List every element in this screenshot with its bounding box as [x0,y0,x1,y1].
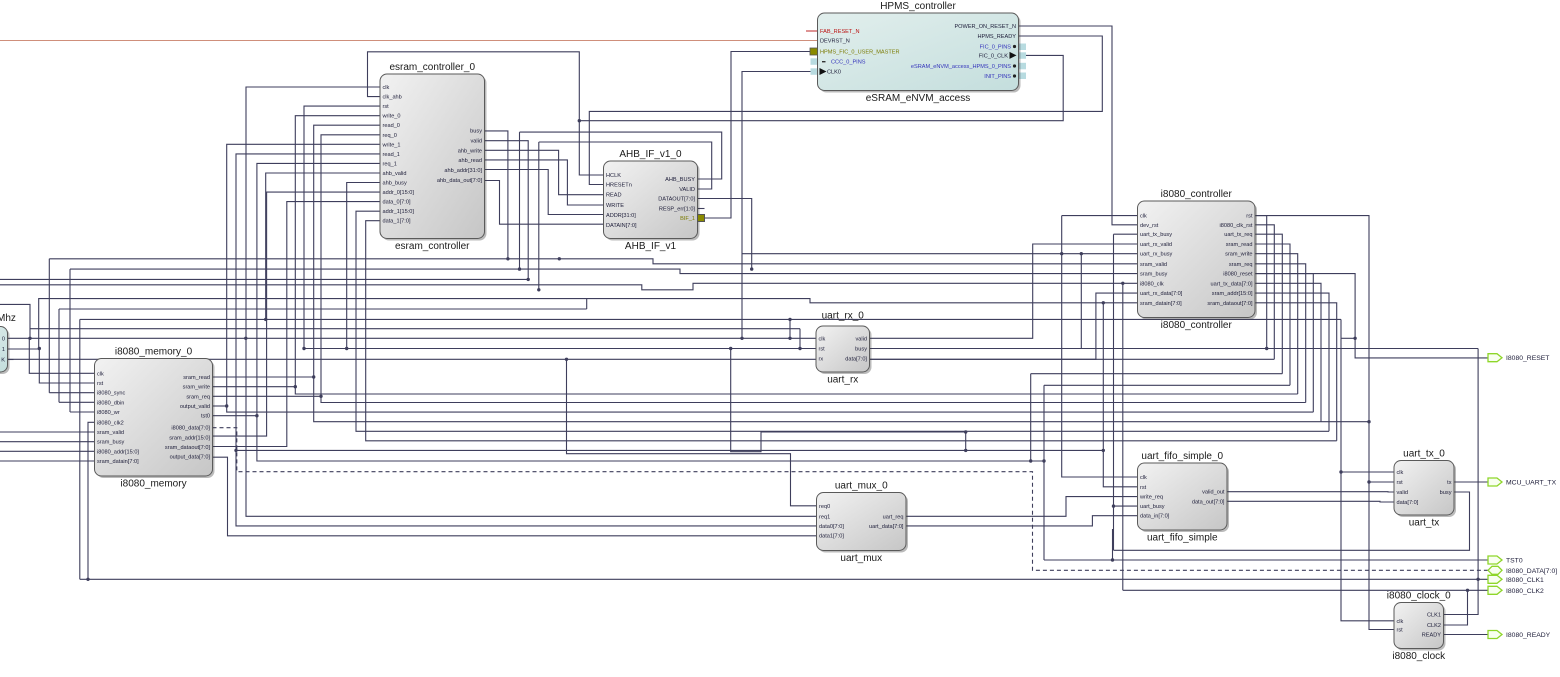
svg-text:READY: READY [1422,633,1442,639]
svg-text:output_valid: output_valid [180,404,210,410]
svg-text:esram_controller: esram_controller [395,241,470,252]
svg-text:sram_read: sram_read [183,375,210,381]
svg-text:data[7:0]: data[7:0] [1397,500,1419,506]
svg-text:write_req: write_req [1139,495,1163,501]
svg-text:output_data[7:0]: output_data[7:0] [170,455,211,461]
svg-text:data[7:0]: data[7:0] [845,357,867,363]
svg-text:i8080_clock: i8080_clock [1392,651,1446,662]
svg-text:Mhz: Mhz [0,313,16,324]
svg-text:i8080_controller: i8080_controller [1161,189,1233,200]
svg-text:busy: busy [1440,490,1452,496]
svg-text:I8080_CLK1: I8080_CLK1 [1506,577,1544,584]
svg-text:uart_tx_0: uart_tx_0 [1403,449,1445,460]
svg-text:I8080_RESET: I8080_RESET [1506,355,1549,362]
svg-text:i8080_controller: i8080_controller [1161,320,1233,331]
svg-text:ahb_addr[31:0]: ahb_addr[31:0] [444,168,482,174]
svg-text:uart_tx_req: uart_tx_req [1224,232,1252,238]
svg-text:eSRAM_eNVM_access_HPMS_0_PINS: eSRAM_eNVM_access_HPMS_0_PINS [911,64,1011,70]
svg-text:uart_data[7:0]: uart_data[7:0] [869,524,904,530]
svg-text:sram_busy: sram_busy [1140,272,1168,278]
svg-text:HRESETn: HRESETn [606,183,632,189]
svg-text:tx: tx [1447,480,1452,486]
svg-text:rst: rst [383,104,390,110]
svg-text:i8080_reset: i8080_reset [1223,272,1253,278]
svg-text:uart_mux: uart_mux [840,553,882,564]
svg-text:K: K [1,358,5,364]
svg-text:POWER_ON_RESET_N: POWER_ON_RESET_N [954,24,1016,30]
svg-text:CLK1: CLK1 [1427,613,1441,619]
svg-text:AHB_IF_v1: AHB_IF_v1 [625,241,677,252]
svg-text:tst0: tst0 [201,414,210,420]
svg-text:sram_busy: sram_busy [97,440,125,446]
svg-text:sram_addr[15:0]: sram_addr[15:0] [169,435,210,441]
svg-text:I8080_DATA[7:0]: I8080_DATA[7:0] [1506,568,1557,575]
svg-text:DATAOUT[7:0]: DATAOUT[7:0] [658,197,695,203]
svg-text:1: 1 [2,347,5,353]
svg-text:sram_read: sram_read [1226,242,1253,248]
svg-text:addr_0[15:0]: addr_0[15:0] [383,190,415,196]
svg-text:addr_1[15:0]: addr_1[15:0] [383,209,415,215]
svg-text:AHB_IF_v1_0: AHB_IF_v1_0 [619,149,682,160]
svg-text:uart_rx_0: uart_rx_0 [822,311,865,322]
svg-text:sram_dataout[7:0]: sram_dataout[7:0] [165,445,211,451]
svg-text:sram_dataout[7:0]: sram_dataout[7:0] [1207,301,1253,307]
svg-text:i8080_addr[15:0]: i8080_addr[15:0] [97,449,139,455]
svg-text:sram_datain[7:0]: sram_datain[7:0] [1140,301,1182,307]
svg-text:uart_tx_data[7:0]: uart_tx_data[7:0] [1211,281,1253,287]
svg-text:clk_ahb: clk_ahb [383,95,402,101]
svg-text:uart_busy: uart_busy [1140,504,1165,510]
svg-text:BIF_1: BIF_1 [680,216,695,222]
svg-text:uart_rx: uart_rx [827,375,858,386]
svg-text:clk: clk [383,85,390,91]
svg-text:rx: rx [819,357,824,363]
svg-text:ahb_write: ahb_write [458,148,482,154]
svg-text:CLK2: CLK2 [1427,623,1441,629]
svg-text:data0[7:0]: data0[7:0] [819,524,844,530]
svg-text:valid_out: valid_out [1202,490,1225,496]
svg-text:i8080_clock_0: i8080_clock_0 [1387,591,1451,602]
svg-text:write_0: write_0 [382,114,401,120]
svg-text:clk: clk [1397,470,1404,476]
svg-text:HPMS_controller: HPMS_controller [880,1,956,12]
svg-text:sram_req: sram_req [1229,262,1253,268]
svg-text:FIC_0_PINS: FIC_0_PINS [980,45,1012,51]
svg-text:uart_fifo_simple_0: uart_fifo_simple_0 [1141,451,1223,462]
svg-text:req1: req1 [819,514,830,520]
svg-text:i8080_sync: i8080_sync [97,391,126,397]
svg-text:uart_fifo_simple: uart_fifo_simple [1147,533,1218,544]
svg-text:rst: rst [97,381,104,387]
svg-text:read_1: read_1 [383,152,400,158]
svg-text:clk: clk [819,336,826,342]
svg-text:i8080_memory: i8080_memory [120,479,186,490]
svg-text:rst: rst [819,346,826,352]
svg-text:INIT_PINS: INIT_PINS [984,74,1011,80]
svg-text:clk: clk [1140,214,1147,220]
svg-text:ahb_busy: ahb_busy [383,181,407,187]
svg-text:uart_tx: uart_tx [1409,518,1440,529]
svg-text:sram_valid: sram_valid [1140,262,1167,268]
svg-text:FAB_RESET_N: FAB_RESET_N [820,29,859,35]
svg-text:CLK0: CLK0 [827,70,841,76]
svg-text:DEVRST_N: DEVRST_N [820,39,850,45]
svg-text:TST0: TST0 [1506,558,1523,565]
svg-text:READ: READ [606,193,622,199]
svg-text:uart_rx_busy: uart_rx_busy [1140,252,1173,258]
svg-text:MCU_UART_TX: MCU_UART_TX [1506,480,1557,487]
svg-text:busy: busy [855,346,867,352]
svg-text:uart_mux_0: uart_mux_0 [835,481,888,492]
svg-text:clk: clk [97,371,104,377]
svg-text:sram_write: sram_write [1225,252,1252,258]
svg-text:data1[7:0]: data1[7:0] [819,534,844,540]
svg-text:data_1[7:0]: data_1[7:0] [383,219,411,225]
svg-text:AHB_BUSY: AHB_BUSY [665,177,695,183]
svg-text:busy: busy [470,129,482,135]
svg-text:i8080_memory_0: i8080_memory_0 [115,347,193,358]
svg-text:rst: rst [1397,628,1404,634]
svg-text:data_out[7:0]: data_out[7:0] [1192,499,1225,505]
svg-text:eSRAM_eNVM_access: eSRAM_eNVM_access [866,93,970,104]
svg-text:data_in[7:0]: data_in[7:0] [1140,514,1170,520]
svg-text:req_0: req_0 [383,133,397,139]
svg-text:HCLK: HCLK [606,173,621,179]
svg-text:uart_req: uart_req [883,514,904,520]
svg-text:i8080_wr: i8080_wr [97,410,120,416]
svg-text:HPMS_FIC_0_USER_MASTER: HPMS_FIC_0_USER_MASTER [820,50,900,56]
svg-text:sram_valid: sram_valid [97,430,124,436]
svg-text:clk: clk [1397,619,1404,625]
svg-text:uart_tx_busy: uart_tx_busy [1140,232,1172,238]
svg-text:rst: rst [1397,480,1404,486]
svg-text:rst: rst [1140,485,1147,491]
svg-text:i8080_clk2: i8080_clk2 [97,420,124,426]
svg-text:sram_datain[7:0]: sram_datain[7:0] [97,459,139,465]
svg-text:ADDR[31:0]: ADDR[31:0] [606,213,636,219]
svg-text:RESP_err[1:0]: RESP_err[1:0] [659,207,696,213]
svg-text:valid: valid [470,139,482,145]
svg-text:rst: rst [1246,214,1253,220]
svg-text:valid: valid [855,336,867,342]
svg-text:clk: clk [1140,475,1147,481]
svg-text:i8080_clk: i8080_clk [1140,281,1164,287]
svg-text:uart_rx_data[7:0]: uart_rx_data[7:0] [1140,291,1183,297]
svg-text:I8080_CLK2: I8080_CLK2 [1506,588,1544,595]
svg-text:sram_addr[15:0]: sram_addr[15:0] [1212,291,1253,297]
svg-text:FIC_0_CLK: FIC_0_CLK [979,53,1008,59]
svg-text:i8080_dbin: i8080_dbin [97,400,124,406]
svg-text:VALID: VALID [679,187,695,193]
svg-text:WRITE: WRITE [606,203,624,209]
svg-text:sram_req: sram_req [186,394,210,400]
svg-text:valid: valid [1397,490,1409,496]
svg-text:0: 0 [2,336,5,342]
svg-text:ahb_data_out[7:0]: ahb_data_out[7:0] [437,178,483,184]
svg-text:i8080_data[7:0]: i8080_data[7:0] [171,426,210,432]
svg-text:uart_rx_valid: uart_rx_valid [1140,242,1172,248]
svg-text:data_0[7:0]: data_0[7:0] [383,200,411,206]
svg-text:DATAIN[7:0]: DATAIN[7:0] [606,223,637,229]
svg-text:CCC_0_PINS: CCC_0_PINS [831,60,866,66]
svg-text:req_1: req_1 [383,161,397,167]
svg-text:sram_write: sram_write [183,385,210,391]
svg-text:read_0: read_0 [383,123,400,129]
svg-text:I8080_READY: I8080_READY [1506,632,1551,639]
svg-text:ahb_read: ahb_read [458,158,482,164]
svg-text:i8080_clk_rst: i8080_clk_rst [1220,223,1253,229]
svg-text:ahb_valid: ahb_valid [383,171,407,177]
svg-text:req0: req0 [819,504,830,510]
svg-text:dev_rst: dev_rst [1140,223,1159,229]
svg-text:esram_controller_0: esram_controller_0 [389,62,475,73]
svg-text:write_1: write_1 [382,142,401,148]
svg-text:HPMS_READY: HPMS_READY [977,34,1016,40]
